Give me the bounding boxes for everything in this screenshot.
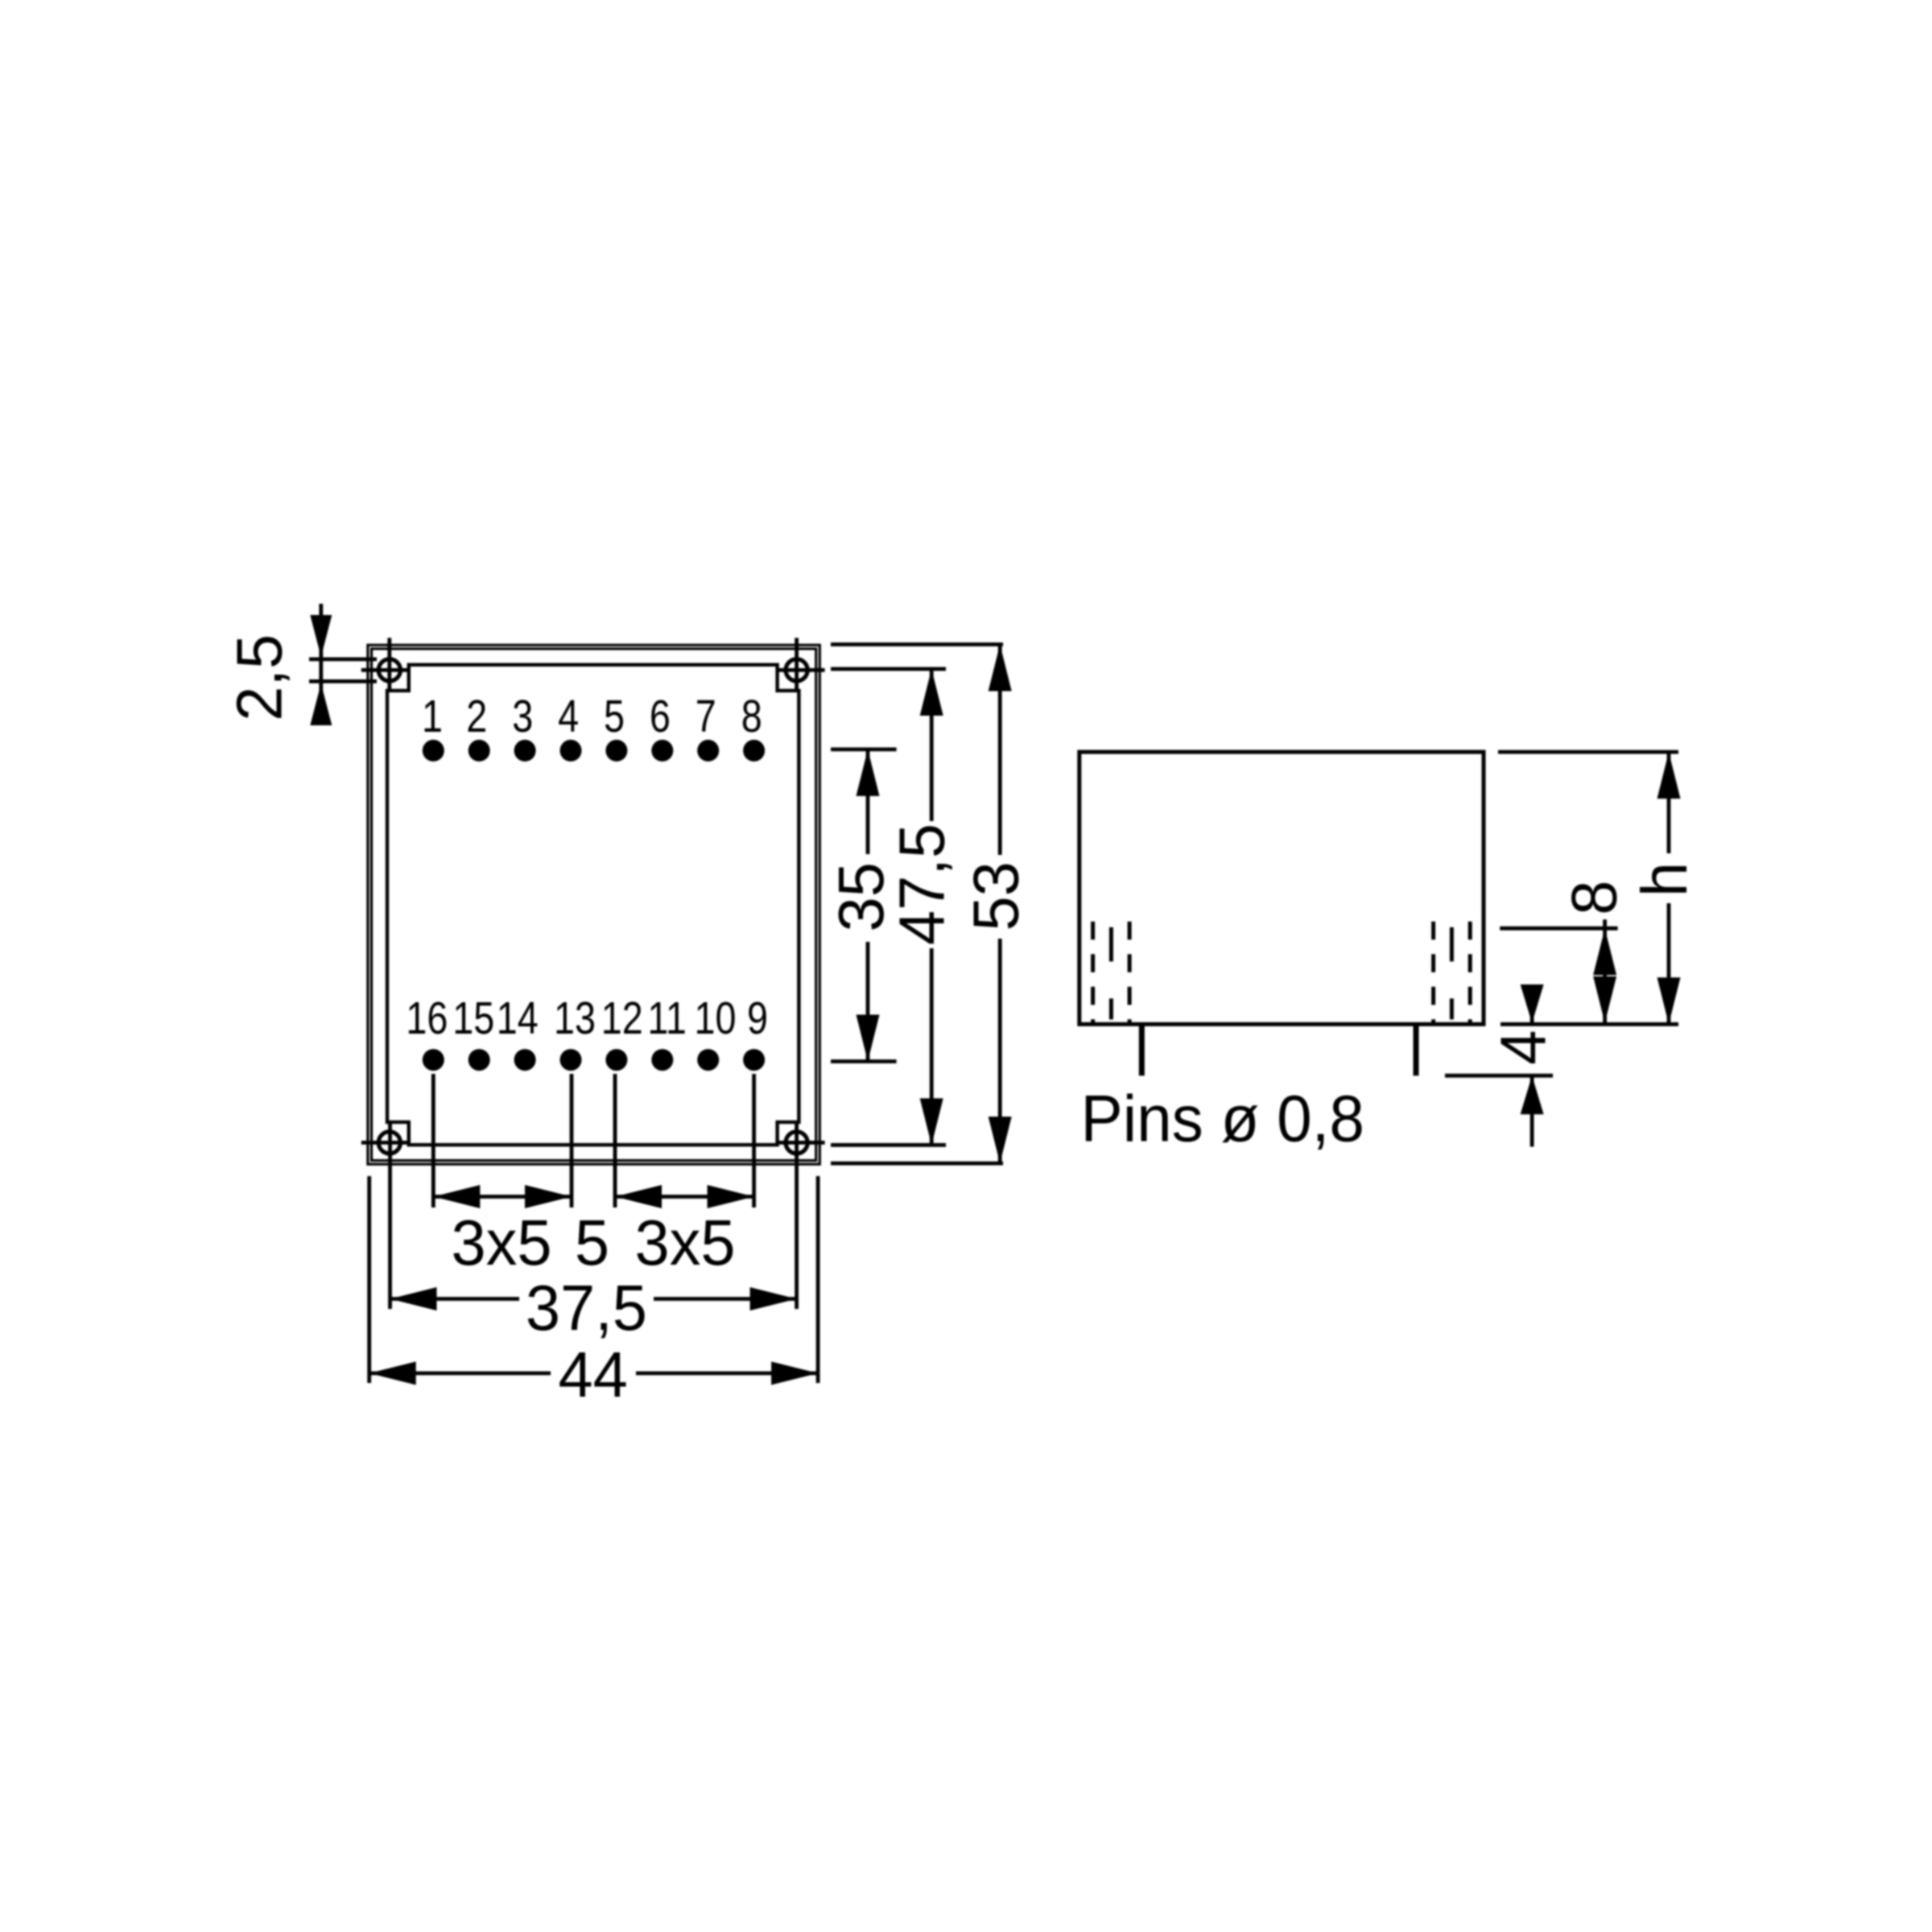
svg-text:1: 1: [422, 691, 443, 742]
pin 12 extension line: [613, 1074, 617, 1207]
svg-text:53: 53: [960, 861, 1032, 931]
dim 37,5 arrowhead right: [750, 1287, 797, 1311]
dim 2,5 extension line lower: [309, 679, 377, 683]
dim 35 arrowhead down: [857, 1015, 880, 1062]
dim 4 arrowhead down: [1521, 985, 1544, 1023]
transformer top-view outer flange rect (outer stroke): [368, 645, 819, 1164]
dim 2,5 dimension line: [319, 604, 323, 720]
pin 16 extension line: [431, 1074, 436, 1207]
svg-text:h: h: [1629, 862, 1700, 897]
pin 11 pad: [651, 1049, 673, 1071]
svg-text:4: 4: [1488, 1030, 1559, 1065]
mounting hole top-right: [786, 659, 807, 681]
dim 44 dimension line left segment: [369, 1372, 551, 1376]
dim 2,5 arrowhead down: [310, 615, 332, 657]
dim h / 4 bottom extension line: [1501, 1022, 1678, 1026]
dim 3x5 right arrowhead right: [708, 1185, 754, 1208]
mounting hole top-right crosshair horizontal: [778, 668, 825, 672]
pin 4 pad: [560, 740, 582, 762]
dim 3x5 right dimension line: [615, 1195, 754, 1199]
dim 8 arrowhead up: [1593, 928, 1616, 975]
dim 4 lower leader line: [1530, 1075, 1534, 1146]
dim 35 extension line top (pin row 1): [831, 748, 897, 752]
mounting hole top-right crosshair vertical: [795, 638, 799, 691]
pin 9 pad: [743, 1049, 765, 1071]
dim h arrowhead up: [1657, 752, 1681, 799]
pin 6 pad: [651, 740, 673, 762]
dim 4 arrowhead up: [1521, 1075, 1544, 1114]
dim 53 arrowhead up: [989, 645, 1012, 691]
pin 5 pad: [605, 740, 627, 762]
dim 53 extension line bottom (flange bottom): [831, 1162, 1003, 1166]
dim 47,5 extension line top (hole row): [831, 667, 946, 671]
dim h dimension line lower segment: [1667, 903, 1671, 1024]
pin 12 pad: [605, 1049, 627, 1071]
dim 44 arrowhead left: [369, 1361, 416, 1385]
pin 1 pad: [423, 740, 444, 762]
svg-text:10: 10: [695, 993, 737, 1044]
pin 8 pad: [743, 740, 765, 762]
dim 47,5 dimension line lower segment: [930, 948, 934, 1145]
svg-text:8: 8: [1558, 881, 1629, 915]
svg-text:3: 3: [512, 691, 533, 742]
dim 35 dimension line lower segment: [866, 942, 870, 1062]
pin 2 pad: [469, 740, 490, 762]
svg-text:Pins ø 0,8: Pins ø 0,8: [1081, 1081, 1364, 1155]
svg-text:14: 14: [497, 993, 539, 1044]
dim 37,5 arrowhead left: [390, 1287, 437, 1311]
hidden pin dashed line left 2 (pin): [1109, 927, 1113, 1024]
dim 2,5 extension line upper: [309, 658, 377, 662]
dim 53 extension line top (flange top): [831, 642, 1003, 646]
dim 3x5 left arrowhead left: [433, 1185, 480, 1208]
svg-text:3x5: 3x5: [634, 1207, 735, 1278]
dim 53 arrowhead down: [989, 1117, 1012, 1163]
svg-text:3x5: 3x5: [451, 1207, 551, 1278]
dim 35 dimension line upper segment: [866, 749, 870, 854]
svg-text:2: 2: [466, 691, 487, 742]
dim 44 right extension line: [816, 1176, 820, 1383]
mounting hole bottom-right crosshair vertical / 37,5 extension line: [795, 1122, 799, 1309]
side view case outline: [1080, 752, 1484, 1024]
pin 7 pad: [697, 740, 719, 762]
mounting hole top-left: [378, 659, 400, 681]
svg-text:9: 9: [747, 993, 768, 1044]
dim 8 dimension line: [1603, 919, 1607, 1023]
side view right pin: [1414, 1024, 1419, 1075]
pin 16 pad: [423, 1049, 444, 1071]
dim 4 upper leader line: [1530, 995, 1534, 1023]
svg-text:8: 8: [741, 691, 762, 742]
bobbin body outline with notched corners: [387, 665, 799, 1145]
dim 47,5 arrowhead down: [920, 1098, 943, 1145]
mounting hole bottom-right crosshair horizontal: [778, 1141, 825, 1145]
mounting hole top-left crosshair vertical: [387, 638, 391, 691]
dim 53 dimension line lower segment: [998, 939, 1002, 1163]
svg-text:7: 7: [696, 691, 716, 742]
pin 3 pad: [514, 740, 536, 762]
dim 44 left extension line: [367, 1176, 371, 1383]
dim 4 bottom extension line (pin tips): [1445, 1074, 1553, 1078]
dim 8 top extension line: [1500, 927, 1617, 931]
hidden pin dashed line right 3: [1468, 922, 1472, 1024]
dim 47,5 arrowhead up: [920, 669, 943, 716]
pin 9 extension line: [752, 1074, 756, 1207]
svg-text:4: 4: [558, 691, 579, 742]
svg-text:15: 15: [452, 993, 494, 1044]
svg-text:6: 6: [650, 691, 671, 742]
dim 44 arrowhead right: [771, 1361, 818, 1385]
hidden pin dashed line left 3: [1128, 922, 1132, 1024]
pin 13 extension line: [570, 1074, 574, 1207]
svg-text:37,5: 37,5: [526, 1272, 647, 1344]
dim 2,5 arrowhead up: [310, 683, 332, 725]
mounting hole bottom-left crosshair horizontal: [361, 1141, 409, 1145]
svg-text:5: 5: [575, 1207, 609, 1278]
dim h dimension line upper segment: [1667, 752, 1671, 853]
svg-text:16: 16: [406, 993, 448, 1044]
svg-text:13: 13: [554, 993, 596, 1044]
dim 3x5 left arrowhead right: [525, 1185, 572, 1208]
hidden pin dashed line left 1: [1091, 922, 1095, 1024]
dim 47,5 dimension line upper segment: [930, 669, 934, 821]
svg-text:47,5: 47,5: [885, 824, 957, 945]
dim h arrowhead down: [1657, 977, 1681, 1024]
hidden pin dashed line right 1: [1431, 922, 1435, 1024]
dim 8 arrowhead down: [1593, 976, 1616, 1023]
pin 13 pad: [560, 1049, 582, 1071]
mounting hole bottom-left: [378, 1132, 400, 1154]
dim 3x5 right arrowhead left: [615, 1185, 662, 1208]
hidden pin dashed line right 2 (pin): [1450, 927, 1454, 1024]
pin 15 pad: [469, 1049, 490, 1071]
dim 35 extension line bottom (pin row 2): [831, 1059, 897, 1063]
svg-text:2,5: 2,5: [224, 634, 295, 721]
dim 44 dimension line right segment: [636, 1372, 818, 1376]
transformer top-view outer flange rect (inner stroke): [372, 649, 816, 1161]
pin 14 pad: [514, 1049, 536, 1071]
mounting hole bottom-right: [786, 1132, 807, 1154]
dim 53 dimension line upper segment: [998, 645, 1002, 856]
dim 37,5 dimension line right segment: [654, 1297, 797, 1301]
mounting hole bottom-left crosshair vertical / 37,5 extension line: [388, 1122, 392, 1309]
svg-text:5: 5: [604, 691, 625, 742]
svg-text:11: 11: [647, 993, 687, 1044]
dim 3x5 left dimension line: [433, 1195, 572, 1199]
mounting hole top-left crosshair horizontal: [361, 668, 409, 672]
svg-text:12: 12: [601, 993, 643, 1044]
dim h top extension line: [1498, 750, 1678, 754]
pin 10 pad: [697, 1049, 719, 1071]
dim 35 arrowhead up: [857, 749, 880, 796]
dim 37,5 dimension line left segment: [390, 1297, 520, 1301]
svg-text:44: 44: [558, 1339, 627, 1410]
dim 47,5 extension line bottom (body bottom): [831, 1143, 946, 1147]
side view left pin: [1139, 1024, 1145, 1075]
